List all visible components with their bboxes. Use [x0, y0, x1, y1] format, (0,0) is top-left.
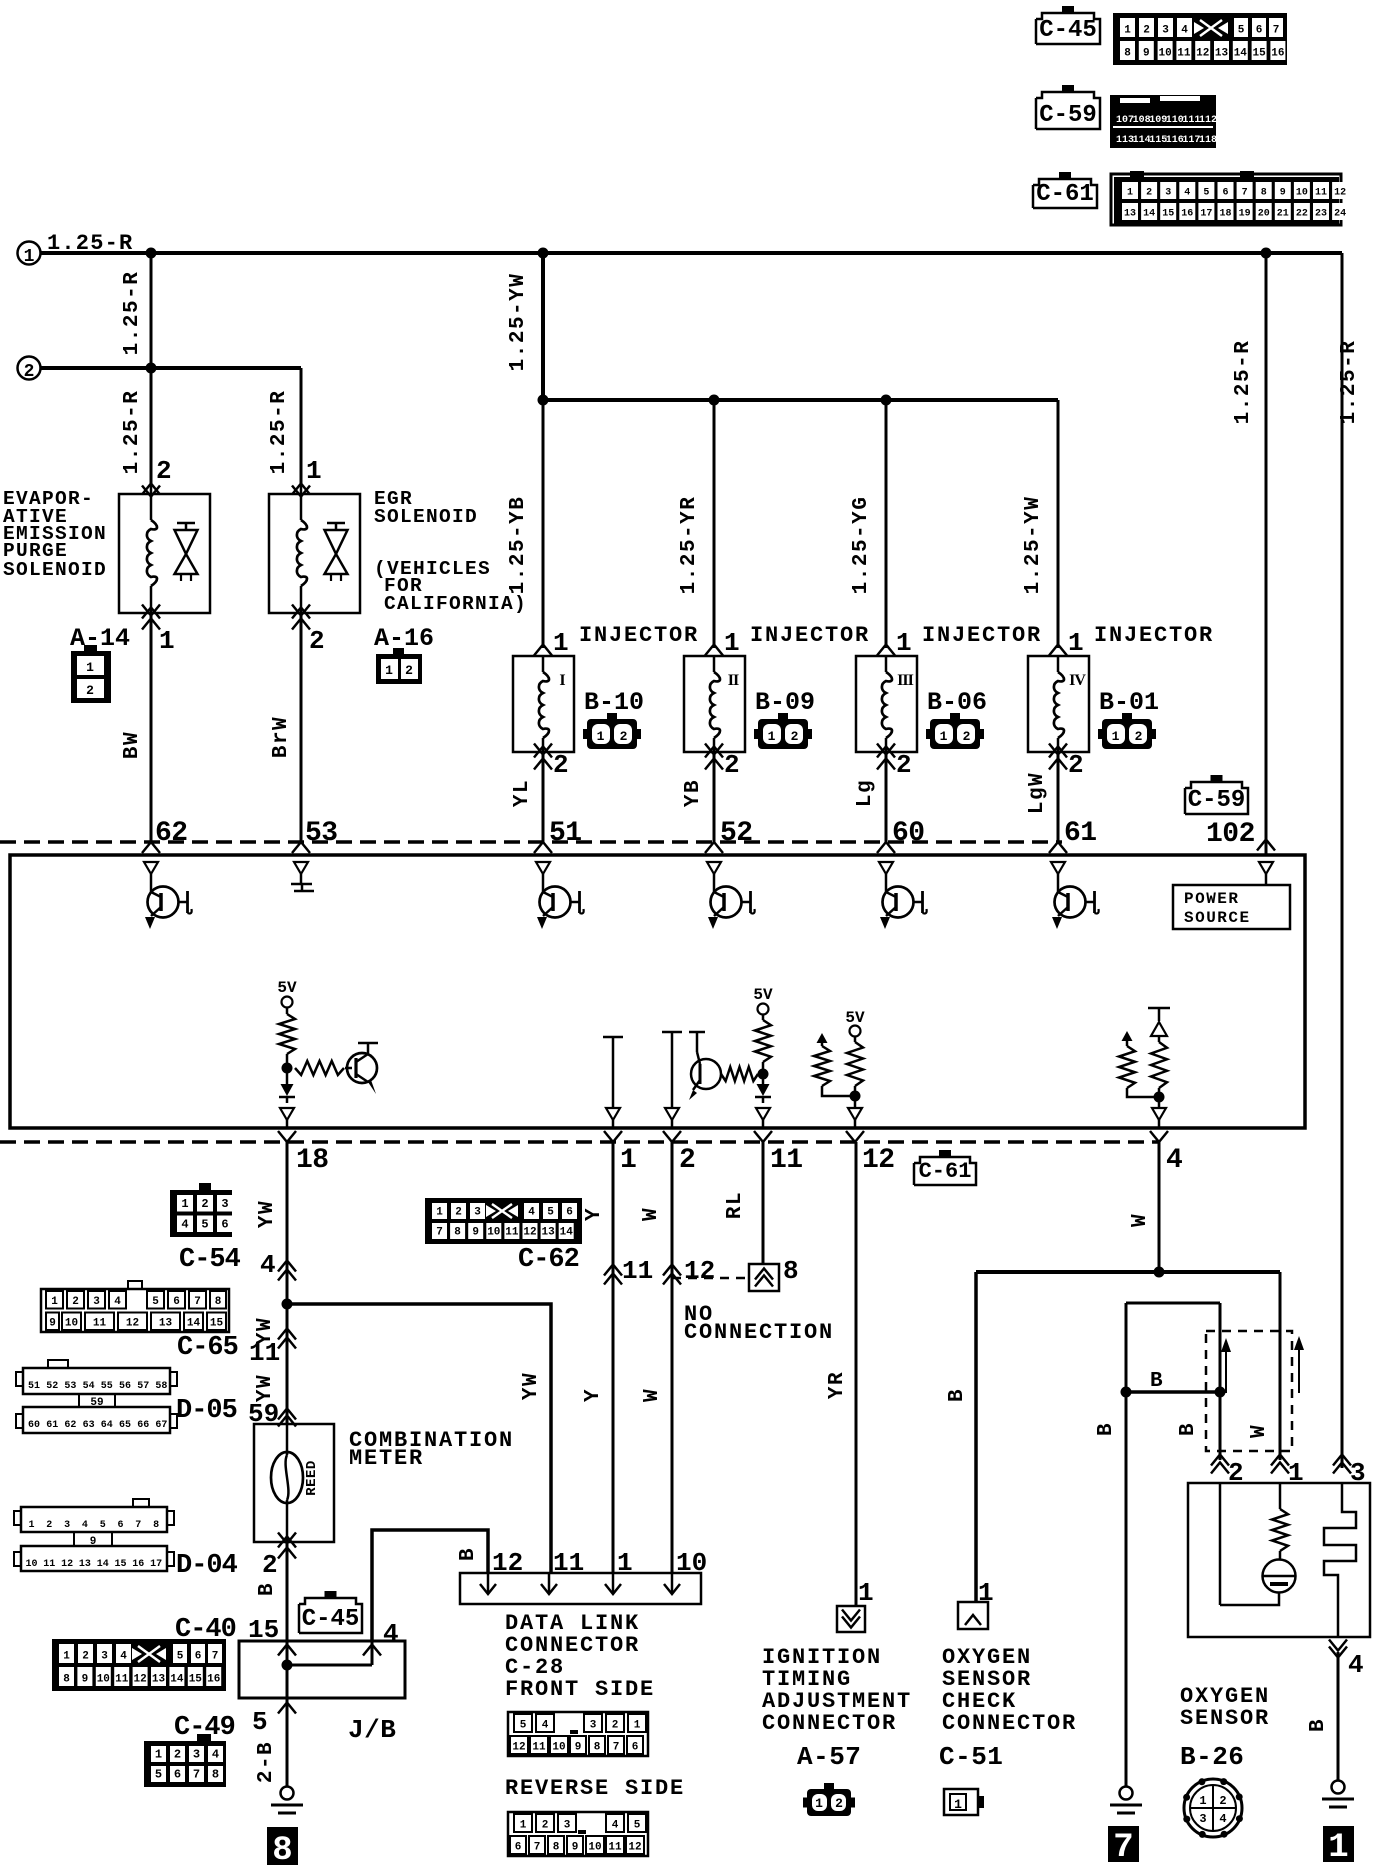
- svg-text:5: 5: [520, 1720, 527, 1732]
- svg-text:1: 1: [436, 1207, 443, 1219]
- wire 1.25-YR to injector B-09: [713, 400, 716, 648]
- svg-text:B: B: [1095, 1422, 1118, 1436]
- connector crossing mark lower at x=855: [846, 1131, 864, 1142]
- svg-text:B-09: B-09: [755, 688, 815, 717]
- svg-text:8: 8: [454, 1227, 461, 1239]
- label COMBINATION METER: [349, 1428, 514, 1471]
- svg-text:11: 11: [608, 1842, 622, 1854]
- svg-text:7: 7: [194, 1296, 201, 1308]
- data link connector pin 10: [664, 1548, 707, 1594]
- oxygen sensor check connector terminal: [958, 1602, 988, 1629]
- wire pin1 branch to oxygen sensor: [1279, 1272, 1282, 1460]
- svg-text:YW: YW: [254, 1374, 277, 1402]
- svg-text:1: 1: [28, 1520, 34, 1531]
- connector crossing mark at x=886: [877, 842, 895, 853]
- svg-text:1.25-R: 1.25-R: [1232, 340, 1255, 425]
- connector D-05 pin diagram: [16, 1360, 177, 1433]
- svg-text:5: 5: [155, 1768, 162, 1782]
- connector C-49 label: [174, 1713, 235, 1743]
- ECU transistor pin 18: [345, 1043, 378, 1094]
- svg-text:1: 1: [181, 1197, 188, 1211]
- svg-text:117: 117: [1182, 135, 1200, 146]
- svg-text:52: 52: [720, 818, 753, 849]
- svg-text:2: 2: [1143, 25, 1150, 37]
- data link connector pin 1: [605, 1548, 633, 1594]
- svg-text:10: 10: [97, 1674, 110, 1686]
- connector A-57 label: [797, 1742, 861, 1772]
- svg-text:11: 11: [532, 1742, 546, 1754]
- svg-text:116: 116: [1166, 135, 1184, 146]
- svg-text:C-54: C-54: [179, 1245, 241, 1275]
- svg-text:6: 6: [1256, 25, 1263, 37]
- svg-text:62: 62: [155, 818, 188, 849]
- svg-text:102: 102: [1206, 819, 1255, 850]
- svg-text:14: 14: [560, 1227, 574, 1239]
- ECU connector boundary (upper dashed line): [0, 840, 1062, 844]
- svg-text:C-45: C-45: [1039, 17, 1097, 44]
- svg-text:9: 9: [90, 1536, 97, 1548]
- junction injector bus B-06: [881, 395, 892, 406]
- svg-text:3: 3: [64, 1520, 70, 1531]
- svg-text:22: 22: [1296, 209, 1308, 220]
- svg-text:9: 9: [82, 1674, 89, 1686]
- label 1.25-R evap upper: [121, 271, 144, 356]
- svg-text:1: 1: [1328, 1829, 1348, 1867]
- connector C-45 pin diagram: [1113, 13, 1287, 65]
- connector mark injector B-06 pin 2: [877, 744, 895, 770]
- svg-text:2-B: 2-B: [255, 1741, 278, 1783]
- ground reference 8: [267, 1827, 298, 1870]
- svg-text:53: 53: [64, 1381, 76, 1392]
- svg-text:9: 9: [1280, 188, 1286, 199]
- wire 1.25-YW to injector B-01: [1057, 400, 1060, 648]
- svg-text:7: 7: [135, 1520, 141, 1531]
- svg-text:REED: REED: [304, 1460, 320, 1496]
- connector mark below evap solenoid: [142, 619, 160, 630]
- svg-text:YW: YW: [520, 1372, 543, 1400]
- svg-text:3: 3: [564, 1820, 571, 1832]
- svg-text:10: 10: [1296, 188, 1308, 199]
- svg-text:Y: Y: [582, 1388, 605, 1402]
- oxygen sensor element: [1220, 1483, 1296, 1605]
- svg-text:11: 11: [1315, 188, 1327, 199]
- svg-text:14: 14: [1234, 48, 1248, 60]
- svg-text:4: 4: [114, 1296, 121, 1308]
- ECU pullup resistor pin 18: [279, 1014, 295, 1054]
- svg-text:C-61: C-61: [1036, 181, 1094, 208]
- svg-text:10: 10: [552, 1742, 565, 1754]
- label BW: [121, 731, 144, 759]
- svg-text:12: 12: [1334, 188, 1346, 199]
- svg-text:2: 2: [835, 1796, 843, 1811]
- svg-text:CALIFORNIA): CALIFORNIA): [384, 593, 527, 615]
- ECU resistor pair pin 12: [814, 1009, 865, 1108]
- svg-text:63: 63: [83, 1420, 95, 1431]
- svg-text:59: 59: [90, 1397, 103, 1409]
- svg-text:D-04: D-04: [176, 1551, 238, 1581]
- svg-text:8: 8: [594, 1742, 601, 1754]
- svg-text:C-65: C-65: [177, 1333, 238, 1363]
- connector C-62 label: [518, 1245, 579, 1275]
- connector mark injector B-09 pin 2: [705, 744, 723, 770]
- label INJECTOR B-10: [579, 623, 699, 648]
- svg-text:4: 4: [120, 1651, 127, 1663]
- oxygen sensor pin 4 mark: [1329, 1640, 1364, 1681]
- pin 1 of EGR solenoid: [306, 456, 322, 486]
- ECU resistor pair pin 4: [1119, 1008, 1170, 1108]
- svg-text:4: 4: [528, 1207, 535, 1219]
- connector C-28 reverse side pin diagram: [508, 1812, 648, 1856]
- wire YW branch to data link connector: [287, 1304, 551, 1573]
- svg-text:9: 9: [49, 1318, 56, 1330]
- wire inside J/B: [282, 1641, 382, 1698]
- svg-text:3: 3: [221, 1197, 228, 1211]
- svg-text:1: 1: [306, 456, 322, 486]
- connector mark at EGR solenoid pin 1: [292, 484, 310, 495]
- svg-text:4: 4: [1219, 1812, 1226, 1826]
- ECU injector driver transistor for pin 51: [536, 862, 584, 929]
- svg-text:12: 12: [1196, 48, 1209, 60]
- label B-06: [927, 688, 987, 717]
- label 1.25-R right edge: [1338, 340, 1361, 425]
- svg-text:4: 4: [181, 1218, 188, 1232]
- svg-text:3: 3: [193, 1748, 200, 1762]
- svg-text:2: 2: [309, 626, 325, 656]
- connector B-26 label: [1180, 1742, 1244, 1772]
- label 1.25-YW: [1022, 496, 1045, 595]
- connector crossing mark lower at x=287: [278, 1131, 296, 1142]
- svg-text:5V: 5V: [845, 1009, 865, 1027]
- svg-text:7: 7: [193, 1768, 200, 1782]
- ECU 5V supply pin 11: [753, 986, 773, 1020]
- junction node2 bus / evap wire: [146, 363, 157, 374]
- wire B oxygen sensor to ground: [1337, 1652, 1340, 1780]
- svg-text:1: 1: [51, 1296, 58, 1308]
- svg-text:2: 2: [724, 750, 740, 780]
- svg-text:15: 15: [210, 1318, 224, 1330]
- svg-text:2: 2: [174, 1748, 181, 1762]
- svg-text:8: 8: [1124, 48, 1131, 60]
- svg-text:16: 16: [132, 1559, 144, 1570]
- connector C-59 pin diagram: [1110, 95, 1217, 148]
- junction top bus / evap branch: [146, 248, 157, 259]
- wire W pin4 segment: [1158, 1142, 1161, 1272]
- svg-text:YB: YB: [682, 779, 705, 807]
- svg-text:14: 14: [170, 1674, 184, 1686]
- ECU pullup resistor pin 11: [755, 1020, 771, 1062]
- svg-text:B: B: [457, 1547, 480, 1561]
- ECU connector boundary (lower dashed line): [0, 1140, 1160, 1144]
- connector mark at evap solenoid pin 2: [142, 484, 160, 495]
- svg-text:4: 4: [1184, 188, 1190, 199]
- svg-text:10: 10: [1158, 48, 1171, 60]
- svg-text:64: 64: [101, 1420, 113, 1431]
- connector crossing mark lower at x=1159: [1150, 1131, 1168, 1142]
- svg-text:61: 61: [46, 1420, 58, 1431]
- wire YW pin18 segment 1: [286, 1142, 289, 1424]
- svg-text:115: 115: [1149, 135, 1167, 146]
- svg-text:3: 3: [590, 1720, 597, 1732]
- svg-text:12: 12: [862, 1145, 895, 1176]
- svg-text:12: 12: [133, 1674, 146, 1686]
- svg-text:2: 2: [896, 750, 912, 780]
- svg-text:5: 5: [177, 1651, 184, 1663]
- label B loop top: [1150, 1370, 1163, 1393]
- wire 1.25-R to evaporative solenoid: [150, 253, 153, 487]
- svg-text:CONNECTION: CONNECTION: [684, 1320, 834, 1345]
- svg-text:11: 11: [93, 1318, 107, 1330]
- svg-text:11: 11: [249, 1338, 280, 1368]
- svg-text:7: 7: [436, 1227, 443, 1239]
- dashed line to no-connection terminal: [672, 1277, 749, 1280]
- svg-text:10: 10: [676, 1548, 707, 1578]
- svg-text:C-61: C-61: [919, 1159, 972, 1184]
- svg-text:1: 1: [63, 1651, 70, 1663]
- svg-text:13: 13: [1215, 48, 1229, 60]
- svg-text:10: 10: [25, 1559, 37, 1570]
- wire RL pin11 to no-connection: [762, 1142, 765, 1264]
- svg-text:A-14: A-14: [70, 624, 130, 653]
- label Y 2: [582, 1388, 605, 1402]
- label RL: [724, 1191, 747, 1219]
- label 1.25-R egr: [268, 390, 291, 475]
- ECU pin 53 internal stub: [291, 862, 314, 891]
- connector B-26 boundary (dashed box): [1206, 1331, 1292, 1451]
- svg-text:D-05: D-05: [176, 1396, 237, 1426]
- svg-text:13: 13: [152, 1674, 166, 1686]
- svg-text:BrW: BrW: [270, 716, 293, 758]
- svg-text:55: 55: [101, 1381, 113, 1392]
- connector C-61 label: [1033, 172, 1097, 208]
- connector mark injector B-06 pin 1: [877, 645, 895, 656]
- label B-01: [1099, 688, 1159, 717]
- label YR: [826, 1371, 849, 1399]
- svg-text:C-51: C-51: [939, 1742, 1003, 1772]
- pin 2 label injector B-09: [724, 750, 740, 780]
- svg-text:4: 4: [383, 1619, 399, 1649]
- C-62 pin 11 label: [622, 1256, 653, 1286]
- svg-text:5: 5: [1203, 188, 1209, 199]
- svg-text:2: 2: [24, 362, 35, 382]
- wire 1.25-R to ECU power source: [1265, 253, 1268, 855]
- ECU injector driver transistor for pin 62: [144, 862, 192, 929]
- svg-text:15: 15: [189, 1674, 203, 1686]
- connector C-51 pin icon: [944, 1789, 984, 1815]
- svg-text:2: 2: [86, 683, 94, 698]
- svg-text:21: 21: [1277, 209, 1289, 220]
- svg-text:15: 15: [114, 1559, 126, 1570]
- connector mark J/B pin 15: [278, 1645, 296, 1656]
- svg-text:I: I: [559, 672, 565, 689]
- pin 2 label injector B-10: [553, 750, 569, 780]
- svg-text:4: 4: [1181, 25, 1188, 37]
- svg-text:2: 2: [679, 1145, 695, 1176]
- svg-text:13: 13: [79, 1559, 91, 1570]
- svg-text:8: 8: [272, 1832, 292, 1870]
- connector mark ECU pin 102: [1257, 840, 1275, 851]
- D-04 pin 2 label: [262, 1550, 278, 1580]
- label YW on data link branch: [520, 1372, 543, 1400]
- connector mark injector B-10 pin 2: [534, 744, 552, 770]
- svg-text:SOLENOID: SOLENOID: [3, 559, 107, 581]
- connector crossing mark lower at x=763: [754, 1131, 772, 1142]
- svg-text:8: 8: [553, 1842, 560, 1854]
- svg-text:7: 7: [1242, 188, 1248, 199]
- svg-text:YL: YL: [511, 779, 534, 807]
- svg-text:108: 108: [1133, 115, 1151, 126]
- ground for J/B circuit: [271, 1787, 303, 1814]
- svg-text:4: 4: [82, 1520, 88, 1531]
- svg-text:INJECTOR: INJECTOR: [922, 623, 1042, 648]
- connector C-61 label at ECU: [914, 1150, 976, 1185]
- label INJECTOR B-01: [1094, 623, 1214, 648]
- pin 2 of evap solenoid: [156, 456, 172, 486]
- svg-text:10: 10: [588, 1842, 601, 1854]
- svg-text:3: 3: [101, 1651, 108, 1663]
- label 1.25-YW upper: [507, 273, 530, 372]
- svg-text:B: B: [1150, 1370, 1163, 1393]
- injector B-09 body: [684, 656, 745, 752]
- label EGR SOLENOID: [374, 488, 478, 528]
- svg-text:66: 66: [137, 1420, 149, 1431]
- svg-text:12: 12: [684, 1256, 715, 1286]
- wire 1.25-YB to injector B-10: [542, 400, 545, 648]
- svg-text:A-57: A-57: [797, 1742, 861, 1772]
- ECU output arrow pin 12: [848, 1108, 862, 1128]
- svg-text:INJECTOR: INJECTOR: [1094, 623, 1214, 648]
- label B loop left: [1095, 1422, 1118, 1436]
- label OXYGEN SENSOR CHECK CONNECTOR: [942, 1645, 1077, 1736]
- label B-10: [584, 688, 644, 717]
- svg-text:3: 3: [1199, 1812, 1206, 1826]
- svg-text:54: 54: [83, 1381, 95, 1392]
- svg-text:51: 51: [549, 818, 582, 849]
- connector crossing mark lower at x=613: [604, 1131, 622, 1142]
- label LgW: [1026, 772, 1049, 814]
- svg-text:1: 1: [1068, 628, 1084, 658]
- connector C-49 pin diagram: [144, 1734, 226, 1787]
- svg-text:2: 2: [405, 663, 413, 678]
- label 1.25-YR: [678, 496, 701, 595]
- connector C-65 label: [177, 1333, 238, 1363]
- svg-text:11: 11: [43, 1559, 55, 1570]
- ground for oxygen sensor: [1322, 1781, 1354, 1808]
- ECU pin 62 label: [155, 818, 188, 849]
- svg-text:POWER: POWER: [1184, 890, 1240, 908]
- ECU box: [10, 855, 1305, 1128]
- svg-text:1: 1: [954, 1797, 962, 1812]
- svg-text:60: 60: [892, 818, 925, 849]
- data link connector box: [460, 1573, 701, 1604]
- svg-text:17: 17: [150, 1559, 162, 1570]
- svg-text:1: 1: [385, 663, 393, 678]
- svg-text:METER: METER: [349, 1446, 424, 1471]
- svg-text:1: 1: [978, 1578, 994, 1608]
- ECU pin 61 label: [1064, 818, 1097, 849]
- wire from node 2 to EGR solenoid branch: [41, 366, 301, 370]
- label DATA LINK CONNECTOR C-28 FRONT SIDE: [505, 1611, 655, 1702]
- ECU pin 102 label: [1206, 819, 1255, 850]
- ignition timing connector pin 1 label: [858, 1578, 874, 1608]
- wire BrW EGR to ECU pin 53: [300, 613, 303, 842]
- wire YB injector B-09 to ECU: [713, 752, 716, 842]
- ECU pin 18 label: [296, 1145, 329, 1176]
- label B check connector: [946, 1388, 969, 1402]
- ECU pin 60 label: [892, 818, 925, 849]
- pin 2 label injector B-01: [1068, 750, 1084, 780]
- label B comb meter: [256, 1582, 279, 1596]
- svg-text:8: 8: [63, 1674, 70, 1686]
- connector D-04 label: [176, 1551, 238, 1581]
- ECU stub pin 2: [662, 1032, 682, 1128]
- svg-text:7: 7: [1113, 1829, 1133, 1867]
- label W 2: [641, 1388, 664, 1402]
- ignition timing connector terminal: [837, 1606, 865, 1632]
- svg-text:114: 114: [1133, 135, 1151, 146]
- svg-text:4: 4: [1348, 1650, 1364, 1680]
- svg-text:1: 1: [155, 1748, 162, 1762]
- svg-text:12: 12: [512, 1742, 525, 1754]
- ECU junction pin 11: [758, 1062, 769, 1084]
- injector B-06 body: [856, 656, 917, 752]
- svg-text:II: II: [728, 672, 739, 689]
- svg-text:10: 10: [65, 1318, 78, 1330]
- svg-text:SOLENOID: SOLENOID: [374, 506, 478, 528]
- svg-text:1: 1: [815, 1796, 823, 1811]
- svg-text:C-62: C-62: [518, 1245, 579, 1275]
- svg-text:J/B: J/B: [348, 1715, 396, 1745]
- label EVAPORATIVE EMISSION PURGE SOLENOID: [3, 488, 107, 581]
- svg-text:18: 18: [1219, 209, 1231, 220]
- svg-text:RL: RL: [724, 1191, 747, 1219]
- svg-text:5: 5: [252, 1707, 268, 1737]
- svg-text:2: 2: [455, 1207, 462, 1219]
- ECU transistor pin 11: [689, 1032, 763, 1100]
- pin 1 label injector B-06: [896, 628, 912, 658]
- svg-text:B: B: [946, 1388, 969, 1402]
- svg-text:1.25-R: 1.25-R: [121, 271, 144, 356]
- connector C-62 crossing mark on W: [663, 1265, 681, 1285]
- label REVERSE SIDE: [505, 1776, 685, 1801]
- svg-text:1.25-YR: 1.25-YR: [678, 496, 701, 595]
- svg-text:13: 13: [541, 1227, 555, 1239]
- junction block J/B box: [239, 1641, 405, 1698]
- svg-text:1.25-YG: 1.25-YG: [850, 496, 873, 595]
- svg-text:5: 5: [201, 1218, 208, 1232]
- label W 1: [640, 1207, 663, 1221]
- label B-09: [755, 688, 815, 717]
- svg-text:60: 60: [28, 1420, 40, 1431]
- label 2-B: [255, 1741, 278, 1783]
- svg-text:6: 6: [515, 1842, 522, 1854]
- svg-text:11: 11: [505, 1227, 519, 1239]
- svg-text:REVERSE SIDE: REVERSE SIDE: [505, 1776, 685, 1801]
- svg-text:2: 2: [542, 1820, 549, 1832]
- connector B-26 pin diagram: [1183, 1778, 1243, 1838]
- svg-text:W: W: [1248, 1424, 1271, 1438]
- svg-text:C-59: C-59: [1039, 102, 1097, 129]
- svg-text:12: 12: [523, 1227, 536, 1239]
- svg-text:8: 8: [783, 1256, 799, 1286]
- svg-text:19: 19: [1239, 209, 1251, 220]
- label B loop right: [1177, 1422, 1200, 1436]
- svg-text:18: 18: [296, 1145, 329, 1176]
- svg-text:2: 2: [156, 456, 172, 486]
- oxygen sensor pin 1 mark: [1271, 1455, 1304, 1489]
- connector crossing mark lower at x=672: [663, 1131, 681, 1142]
- ECU pin 52 label: [720, 818, 753, 849]
- connector C-65 pin diagram: [41, 1281, 229, 1332]
